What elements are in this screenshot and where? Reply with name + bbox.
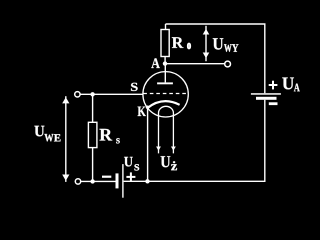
junction dot bottom left: [90, 179, 94, 183]
junction dot cathode / bottom rail: [145, 179, 149, 183]
terminal input top (open circle): [75, 92, 80, 97]
resistor R0 body: [161, 30, 169, 57]
battery UA minus sign: [269, 102, 278, 105]
resistor R0 lead bottom: [164, 57, 166, 64]
label UWY: [213, 38, 239, 52]
label UWE: [34, 126, 60, 142]
label US (grid bias battery): [124, 157, 139, 171]
battery US plus sign: [126, 172, 135, 181]
junction dot cathode K: [146, 106, 149, 109]
arrow UWY (double headed, output voltage): [205, 26, 207, 61]
tube cathode arc: [148, 101, 180, 108]
tube anode plate bar: [157, 82, 173, 84]
battery US plate negative (short thick): [116, 173, 119, 188]
wire right side lower (battery UA - to bottom rail): [264, 100, 266, 182]
battery UA plate positive (long thin): [251, 93, 281, 95]
resistor R0 lead top: [165, 24, 167, 30]
wire anode row A (node A to output terminal): [165, 63, 225, 65]
node A junction dot: [163, 61, 167, 65]
anode lead into tube: [164, 64, 166, 83]
resistor Rs body: [88, 122, 97, 147]
cathode lead K to bottom rail: [147, 107, 149, 181]
label R0: [172, 37, 191, 49]
tube grid (dashed): [143, 93, 188, 95]
tube heater filament with leads: [159, 106, 174, 153]
wire grid row S (input terminal to tube grid): [80, 93, 143, 95]
terminal input bottom (open circle): [75, 179, 80, 184]
arrowhead Uz left (down): [156, 147, 161, 151]
wire bottom rail right (battery US + to right corner): [124, 180, 266, 182]
label Uz (heater voltage): [161, 156, 177, 170]
label A (anode node): [151, 58, 160, 68]
battery UA plus sign: [269, 81, 278, 90]
battery US plate positive (long thin): [122, 164, 123, 198]
arrow UWE (double headed, input voltage): [65, 96, 67, 182]
battery UA plate negative (short thick): [256, 97, 277, 100]
wire bottom rail left (terminal to battery US -): [81, 180, 116, 182]
resistor Rs lead top: [92, 94, 94, 122]
resistor Rs lead bottom: [92, 148, 94, 182]
label Rs: [100, 129, 120, 144]
battery US minus sign: [102, 176, 111, 178]
label K (cathode): [138, 107, 146, 116]
junction dot grid row: [90, 92, 94, 96]
wire right side upper (to battery UA +): [264, 24, 266, 93]
tube V1 envelope: [143, 72, 188, 117]
wire top rail: [166, 23, 266, 25]
arrowhead Uz right (down): [171, 147, 176, 151]
terminal output (open circle): [225, 61, 231, 67]
label S (grid): [131, 83, 138, 91]
label UA (anode battery): [282, 78, 299, 92]
